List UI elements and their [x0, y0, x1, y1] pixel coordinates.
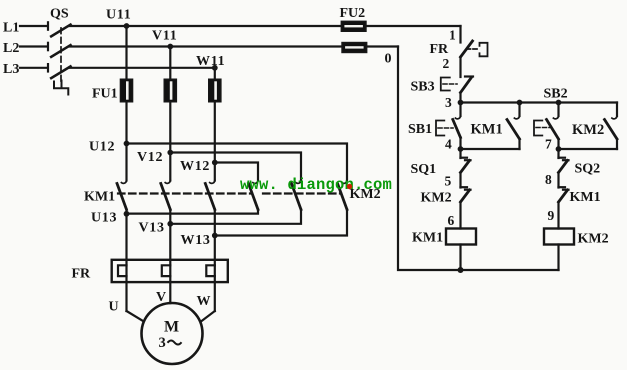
wire W column lower: [214, 210, 216, 312]
wire KM2 NC to coil KM1: [459, 202, 461, 229]
wire V12 crossover to KM2 middle pole: [170, 153, 301, 181]
coil KM2: [544, 229, 574, 245]
svg-text:U11: U11: [106, 8, 131, 23]
switch QS pole 2: [48, 43, 71, 57]
node W11: [212, 65, 218, 71]
svg-text:KM1: KM1: [412, 231, 443, 246]
wire L3 after QS to W11: [70, 67, 215, 69]
wire KM1 NC to coil KM2: [557, 202, 559, 229]
FR heater element 1: [118, 265, 127, 276]
svg-text:7: 7: [545, 137, 552, 152]
svg-text:3: 3: [445, 95, 452, 110]
wire L3 phase line: [20, 67, 48, 69]
motor M circle: [142, 303, 203, 364]
svg-text:KM2: KM2: [421, 191, 452, 206]
svg-text:3: 3: [159, 335, 166, 351]
svg-text:KM2: KM2: [572, 122, 604, 138]
wire W column upper (W11 to W12): [214, 68, 216, 163]
svg-text:SB1: SB1: [408, 122, 432, 137]
KM2 linkage dashed bar: [263, 192, 341, 194]
svg-text:L1: L1: [3, 21, 19, 36]
svg-text:KM1: KM1: [84, 190, 115, 205]
svg-text:2: 2: [443, 56, 450, 71]
svg-text:0: 0: [385, 52, 392, 67]
wire node7 to SQ2: [557, 149, 559, 158]
svg-text:FR: FR: [430, 42, 450, 57]
contact KM1 auxiliary NO: [507, 103, 520, 150]
wire SB1 to node 4: [459, 138, 461, 150]
contactor KM1 main contact 1: [117, 144, 127, 210]
wire V column lower: [169, 210, 171, 304]
contactor KM1 main contact 2: [161, 153, 171, 210]
wire KM1 aux bottom to node 4: [461, 148, 520, 150]
wire SQ1 to KM2 NC: [459, 173, 461, 188]
switch QS pole 1: [48, 22, 71, 36]
wire motor lead W diagonal: [201, 311, 215, 322]
fuse FU2 pole 2: [342, 43, 367, 53]
wire L1 after QS to control corner: [70, 25, 461, 27]
svg-text:FR: FR: [72, 267, 92, 282]
wire node4 to SQ1: [459, 149, 461, 158]
svg-text:W13: W13: [181, 233, 211, 248]
coil KM1: [446, 229, 476, 245]
svg-text:SQ2: SQ2: [575, 162, 601, 177]
svg-text:5: 5: [445, 174, 452, 189]
pushbutton SB3 NC: [441, 77, 473, 93]
FR heater element 3: [206, 265, 215, 276]
contactor KM2 main contact 2: [292, 181, 302, 210]
limit switch SQ2 NC: [559, 158, 569, 173]
relay FR heater box: [112, 260, 228, 282]
node V12: [167, 150, 173, 156]
wire neutral 0 drop: [398, 47, 559, 271]
wire W12 crossover to KM2 left pole: [215, 163, 258, 181]
fuse FU1 pole 1: [121, 79, 133, 101]
node U11: [124, 23, 130, 29]
svg-text:KM2: KM2: [578, 232, 609, 247]
wire L2 after QS to 0 corner: [70, 45, 399, 47]
QS linkage dashed bar: [60, 28, 62, 82]
node W13: [212, 233, 218, 239]
wire KM2 pole2 to V13: [170, 210, 301, 224]
svg-text:V12: V12: [137, 150, 163, 165]
wire control rung top corner: [459, 26, 461, 43]
svg-text:SB2: SB2: [544, 87, 568, 102]
wire U12 crossover to KM2 right pole: [127, 144, 348, 181]
svg-text:W11: W11: [196, 54, 225, 69]
svg-text:L3: L3: [3, 62, 19, 77]
svg-text:6: 6: [448, 213, 455, 228]
node SB2 branch top: [556, 100, 562, 106]
contactor KM2 main contact 1: [249, 181, 259, 210]
wire SB3 to node 3: [459, 93, 461, 103]
svg-text:L2: L2: [3, 41, 19, 56]
svg-text:U: U: [109, 300, 119, 315]
fuse FU1 pole 2: [164, 79, 176, 101]
svg-text:SQ1: SQ1: [411, 162, 437, 177]
contactor KM1 main contact 3: [205, 163, 215, 210]
contactor KM2 main contact 3: [338, 181, 348, 210]
wire SQ2 to KM1 NC: [557, 173, 559, 188]
wire U column lower (blade to motor): [125, 210, 127, 312]
contact KM2 NC interlock: [461, 187, 471, 202]
svg-text:W: W: [197, 294, 211, 309]
svg-text:V13: V13: [139, 221, 165, 236]
node rail junction: [458, 267, 464, 273]
svg-text:V11: V11: [152, 29, 177, 44]
wire KM2 pole1 to U13: [127, 210, 259, 214]
wire coil KM1 to rail: [459, 245, 461, 271]
wire FR to SB3: [459, 57, 461, 77]
FR heater element 2: [162, 265, 171, 276]
pushbutton SB2 NO: [534, 103, 559, 150]
wire U column upper (U11 to U12): [125, 26, 127, 144]
fuse FU2 pole 1: [341, 21, 366, 31]
watermark red dot: [347, 184, 352, 189]
KM1 linkage dashed bar: [118, 192, 252, 194]
svg-text:U12: U12: [89, 140, 115, 155]
svg-text:FU1: FU1: [92, 87, 118, 102]
svg-text:KM1: KM1: [570, 190, 601, 205]
wire coil KM2 to rail: [557, 245, 559, 271]
svg-text:1: 1: [449, 28, 456, 43]
wire KM2 pole3 to W13: [215, 210, 347, 236]
svg-text:9: 9: [548, 208, 555, 223]
svg-text:KM1: KM1: [471, 122, 503, 138]
svg-text:www. diangon.com: www. diangon.com: [240, 176, 392, 194]
svg-text:4: 4: [445, 137, 452, 152]
node 3: [458, 100, 464, 106]
fuse FU1 pole 3: [209, 79, 221, 101]
wire L2 phase line: [20, 45, 48, 47]
wire motor lead U diagonal: [127, 311, 143, 321]
svg-text:V: V: [156, 290, 166, 305]
node V11: [167, 44, 173, 50]
svg-text:W12: W12: [180, 159, 210, 174]
node 7: [556, 146, 562, 152]
node W12: [212, 160, 218, 166]
wire L1 phase line: [20, 25, 48, 27]
svg-text:FU2: FU2: [340, 6, 366, 21]
node U12: [124, 141, 130, 147]
node U13: [124, 211, 130, 217]
contact KM1 NC interlock: [559, 187, 569, 202]
node V13: [167, 221, 173, 227]
svg-text:8: 8: [545, 172, 552, 187]
pushbutton SB1 NO: [436, 103, 461, 138]
node KM1 branch top: [517, 100, 523, 106]
svg-text:U13: U13: [91, 211, 117, 226]
svg-text:M: M: [164, 319, 179, 336]
svg-text:QS: QS: [50, 7, 69, 22]
contact KM2 auxiliary NO: [605, 103, 618, 150]
wire KM2 aux bottom to node 7: [559, 148, 618, 150]
svg-text:SB3: SB3: [411, 80, 435, 95]
wire V column upper (V11 to V12): [169, 47, 171, 153]
node 4: [458, 146, 464, 152]
relay FR NC contact: [461, 41, 488, 57]
QS handle hook: [54, 81, 68, 95]
switch QS pole 3: [48, 64, 71, 78]
limit switch SQ1 NC: [461, 158, 471, 173]
wire control top horizontal: [461, 101, 618, 103]
